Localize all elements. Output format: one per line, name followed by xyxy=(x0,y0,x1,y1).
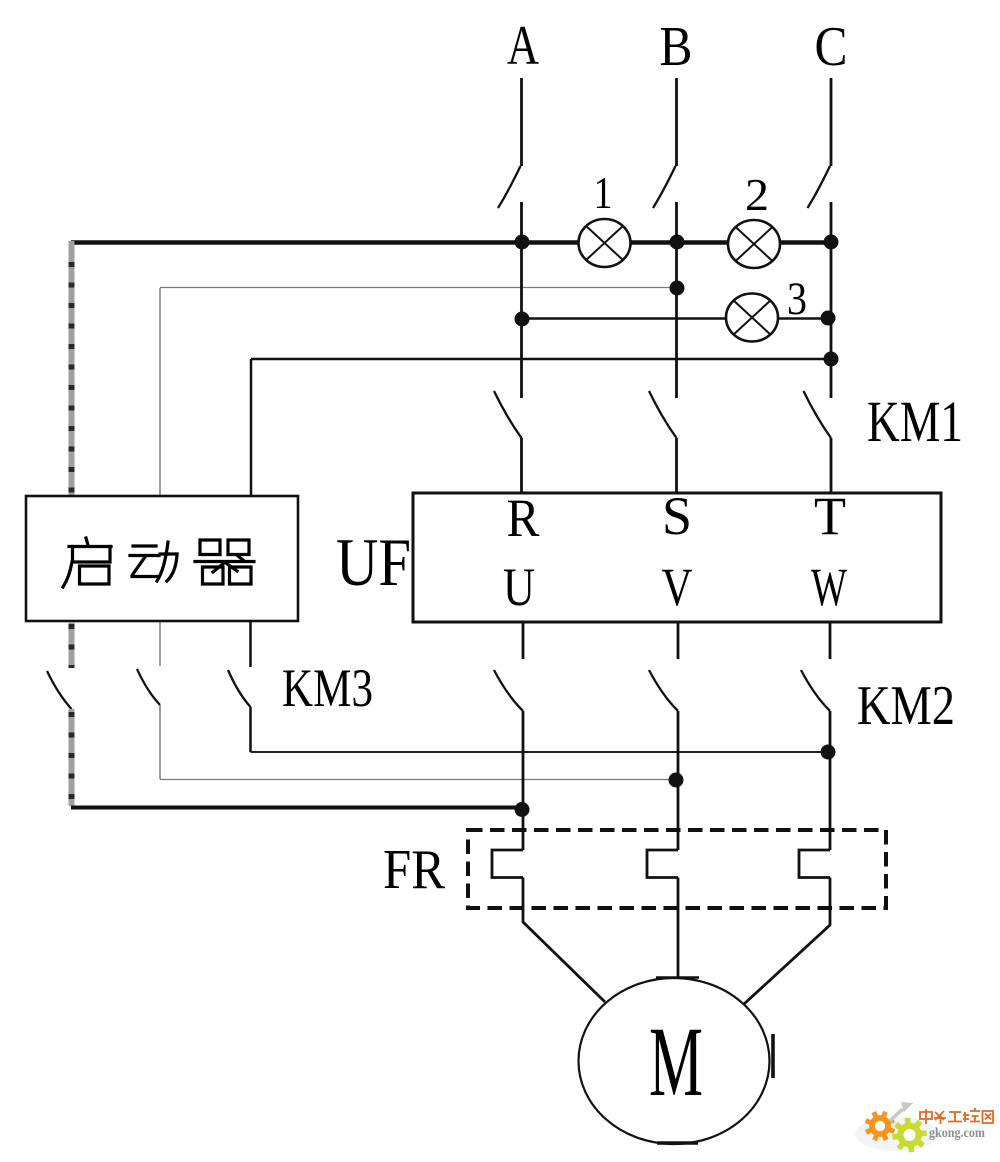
svg-text:KM1: KM1 xyxy=(867,389,963,454)
svg-text:V: V xyxy=(662,557,693,617)
svg-text:A: A xyxy=(507,15,539,77)
svg-text:T: T xyxy=(814,486,846,546)
svg-text:KM2: KM2 xyxy=(857,675,955,737)
svg-text:gkong.com: gkong.com xyxy=(929,1125,986,1140)
svg-text:M: M xyxy=(649,1006,703,1117)
svg-text:3: 3 xyxy=(787,273,807,325)
svg-text:KM3: KM3 xyxy=(282,658,373,718)
svg-text:S: S xyxy=(662,486,692,546)
svg-text:W: W xyxy=(811,557,847,617)
svg-text:U: U xyxy=(503,557,535,617)
svg-text:C: C xyxy=(815,16,848,78)
svg-text:2: 2 xyxy=(745,169,769,220)
svg-text:1: 1 xyxy=(594,167,613,218)
svg-text:R: R xyxy=(507,488,540,548)
svg-text:B: B xyxy=(660,16,693,78)
svg-text:FR: FR xyxy=(383,839,446,901)
svg-text:UF: UF xyxy=(336,524,411,600)
